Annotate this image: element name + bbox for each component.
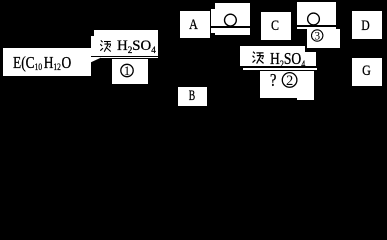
arrow label 1 reagent box left part [91, 36, 94, 59]
box G [352, 58, 382, 86]
hanzi nong (浓) of label 1 [100, 40, 111, 51]
arrowhead wedge white tab under label 1 [91, 58, 101, 65]
arrow label O (C to D) box [297, 2, 336, 25]
text H2SO4 of label 2 [270, 50, 305, 70]
text E(C10H12O [13, 54, 71, 74]
letter G [362, 64, 371, 79]
circled digit 1 [121, 63, 133, 78]
question mark and circled 2 box [260, 71, 314, 98]
box C [261, 12, 291, 40]
circle O on label A-C [225, 14, 237, 26]
arrow shaft line under label 1 [91, 56, 158, 58]
arrow label O (A to C): main box [215, 3, 250, 35]
circled 3 label box [307, 29, 340, 48]
box D [352, 11, 382, 39]
box E reactant [3, 48, 91, 76]
arrow shaft line under label 2 [240, 66, 318, 68]
question box lower-right step [297, 98, 314, 101]
white strip under shaft line 2b [243, 68, 317, 70]
arrow label O (A to C): left extension [211, 9, 214, 33]
circled digit 3 [312, 30, 323, 43]
arrow label 2 reagent box part b [305, 52, 316, 66]
box B [178, 87, 207, 107]
arrow shaft line under O label [211, 26, 250, 28]
svg-text:3: 3 [314, 30, 320, 42]
svg overlay: hanzi glyphs, circles, circled digits, arrowhead [0, 0, 387, 112]
question mark text [270, 71, 276, 89]
white strip under shaft line 2 [297, 27, 336, 29]
circle O on label C-D [308, 13, 320, 25]
svg-text:2: 2 [286, 73, 293, 89]
arrow shaft line under O label 2 [297, 25, 336, 27]
arrow label 1 reagent box [94, 30, 158, 59]
svg-text:1: 1 [124, 63, 131, 78]
text H2SO4 of label 1 [117, 39, 156, 55]
arrow label 2 reagent box part a [240, 46, 305, 67]
circled 1 label box [112, 59, 148, 84]
hanzi nong (浓) of label 2 [253, 52, 264, 64]
box A [180, 11, 210, 38]
letter A [189, 18, 198, 33]
letter D [361, 19, 369, 34]
letter B [188, 89, 194, 104]
letter C [271, 19, 279, 34]
arrowhead wedge 1 (black triangle) [91, 58, 101, 64]
circled digit 2 [282, 73, 297, 89]
